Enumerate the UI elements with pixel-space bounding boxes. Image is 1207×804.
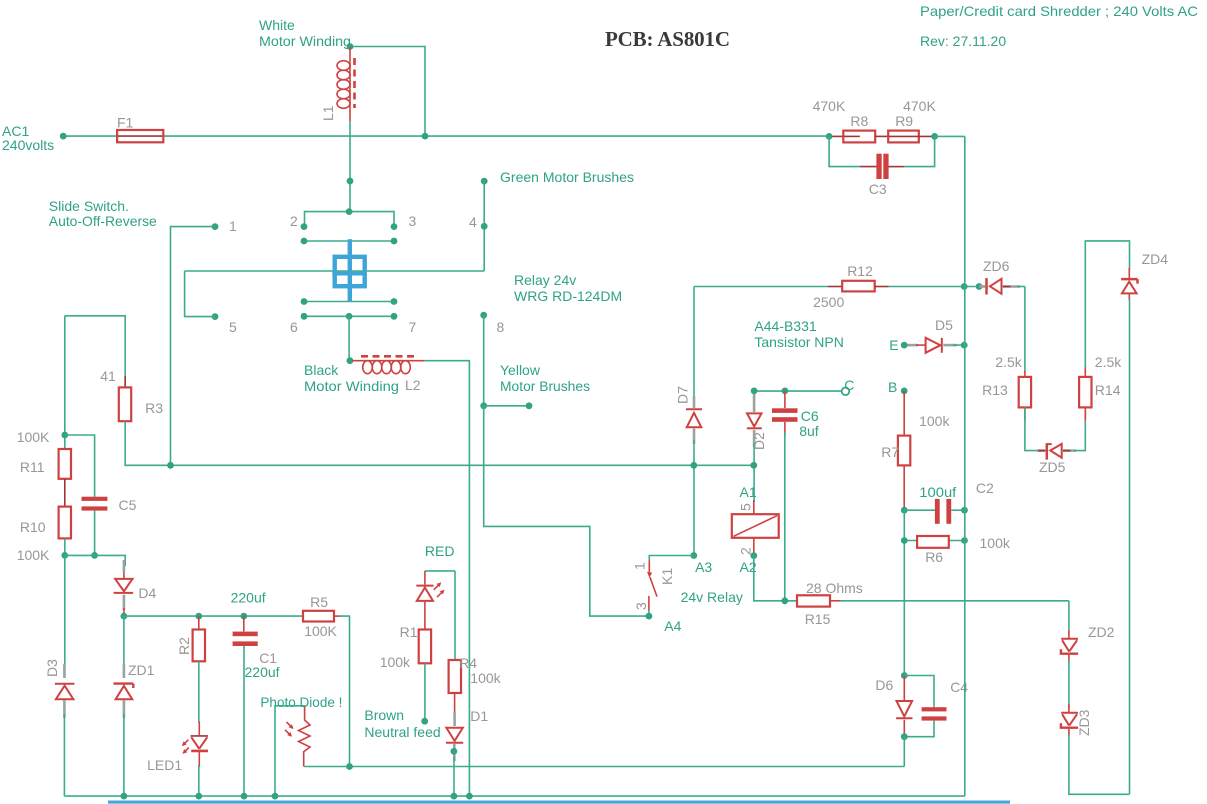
- wire: to right vertical: [935, 135, 965, 137]
- svg-text:R12: R12: [847, 263, 873, 279]
- LED LED1: [182, 722, 208, 797]
- wire: R5 right down to rail: [339, 616, 350, 766]
- node brown neutral terminal: [421, 718, 428, 725]
- label pin numbers 1-8: [229, 213, 505, 335]
- node pin 1: [212, 223, 219, 230]
- svg-text:Relay 24v: Relay 24v: [514, 272, 576, 288]
- svg-text:D5: D5: [935, 317, 953, 333]
- wire: R14 up and over to ZD4: [1084, 367, 1086, 378]
- wire: RED led network top link: [425, 570, 455, 572]
- junction rail C1: [241, 793, 248, 800]
- wire: ZD2 chain from R15 line: [1068, 601, 1070, 630]
- svg-text:5: 5: [229, 319, 237, 335]
- svg-text:470K: 470K: [903, 98, 936, 114]
- junction D1 bottom: [451, 748, 458, 755]
- node A4: [646, 613, 653, 620]
- junction below AC line: [347, 178, 354, 185]
- svg-text:1: 1: [229, 218, 237, 234]
- svg-text:R2: R2: [176, 637, 192, 655]
- svg-text:E: E: [889, 337, 898, 353]
- wire: D4 node down to ZD1: [123, 616, 125, 672]
- svg-text:R11: R11: [20, 459, 45, 475]
- svg-text:R13: R13: [982, 382, 1008, 398]
- svg-text:100k: 100k: [470, 670, 501, 686]
- junction C5 top tap: [61, 432, 68, 439]
- zener ZD5: [1037, 443, 1077, 459]
- wire: pin8 down and yellow terminal stub: [484, 315, 529, 406]
- switch K1: [647, 561, 657, 616]
- svg-text:Auto-Off-Reverse: Auto-Off-Reverse: [49, 213, 157, 229]
- wire: L1 top to AC line: [350, 47, 425, 137]
- wire: switch row 2: [304, 240, 394, 242]
- capacitor C2 100uf: [904, 499, 964, 524]
- svg-text:220uf: 220uf: [245, 664, 280, 680]
- inductor L1: [337, 47, 355, 122]
- wire: ZD5 to R14: [1074, 407, 1085, 450]
- node pin 8: [480, 312, 487, 319]
- wire: switch row 3: [304, 301, 394, 303]
- wire: main right vertical: [964, 136, 966, 796]
- blue bottom bar: [108, 801, 1010, 804]
- resistor R9: [875, 131, 934, 143]
- svg-text:ZD5: ZD5: [1039, 459, 1066, 475]
- wire: C3 parallel bracket: [829, 136, 935, 166]
- svg-text:A44-B331: A44-B331: [754, 318, 816, 334]
- svg-text:24v Relay: 24v Relay: [681, 589, 743, 605]
- junction D4 bottom node: [121, 613, 128, 620]
- svg-text:Brown: Brown: [364, 707, 404, 723]
- svg-text:C3: C3: [869, 181, 887, 197]
- zener ZD2: [1061, 630, 1078, 708]
- junction C2 right: [961, 507, 968, 514]
- diode D7: [686, 287, 702, 556]
- junction C1 top: [240, 613, 247, 620]
- wire: C node line: [754, 390, 842, 392]
- resistor R4: [449, 660, 461, 693]
- wire: R13 down to ZD5: [1025, 407, 1039, 450]
- junction rail ZD1: [121, 793, 128, 800]
- resistor R8: [829, 131, 875, 143]
- svg-text:Motor Winding: Motor Winding: [259, 33, 351, 49]
- svg-text:C6: C6: [801, 408, 819, 424]
- svg-text:2: 2: [290, 213, 298, 229]
- junction row3 right: [391, 298, 398, 305]
- wire: ZD6 down to R13: [1024, 287, 1026, 373]
- svg-text:R3: R3: [145, 400, 163, 416]
- svg-text:Motor Brushes: Motor Brushes: [500, 378, 590, 394]
- svg-text:100k: 100k: [919, 413, 950, 429]
- svg-text:2.5k: 2.5k: [1095, 354, 1122, 370]
- svg-text:B: B: [888, 379, 897, 395]
- wire: A2 down to R15 line: [754, 556, 797, 601]
- svg-text:Motor Winding: Motor Winding: [304, 378, 399, 394]
- wire: row 555 to D4: [65, 555, 125, 566]
- svg-text:Neutral feed: Neutral feed: [364, 724, 440, 740]
- svg-text:6: 6: [290, 319, 298, 335]
- diode D5: [908, 338, 965, 353]
- junction D2 / long net: [750, 462, 757, 469]
- photo diode PD: [275, 706, 310, 796]
- junction C2 left: [901, 507, 908, 514]
- diode D6: [896, 676, 912, 737]
- svg-text:2.5k: 2.5k: [995, 354, 1022, 370]
- zener ZD6: [979, 278, 1025, 294]
- svg-text:7: 7: [409, 319, 417, 335]
- svg-text:D6: D6: [875, 677, 893, 693]
- wire: bottom ground rail: [64, 795, 964, 797]
- junction ZD6 left: [976, 283, 983, 290]
- svg-text:D2: D2: [751, 432, 767, 450]
- svg-text:470K: 470K: [813, 98, 846, 114]
- svg-text:100k: 100k: [980, 535, 1011, 551]
- relay slide symbol (blue): [332, 239, 366, 301]
- wire: A3 to K1: [649, 556, 694, 562]
- resistor R2: [193, 616, 205, 722]
- svg-text:C: C: [844, 377, 854, 393]
- junction row 555 left: [61, 552, 68, 559]
- node pin 5: [212, 313, 219, 320]
- zener ZD1: [113, 664, 133, 796]
- node A3: [690, 552, 697, 559]
- svg-text:1: 1: [632, 562, 648, 570]
- resistor R3: [119, 376, 131, 421]
- resistor R5: [303, 611, 341, 622]
- svg-text:R7: R7: [881, 444, 899, 460]
- svg-text:100k: 100k: [380, 654, 411, 670]
- junction long net / pin1 vertical: [167, 462, 174, 469]
- wire: pin6 center down to L2: [348, 316, 350, 360]
- wire: switch row 4: [304, 315, 394, 317]
- junction D7 / long net: [690, 462, 697, 469]
- svg-text:8: 8: [497, 319, 505, 335]
- wire: R10 bottom to row: [64, 538, 66, 555]
- svg-text:R9: R9: [895, 113, 913, 129]
- svg-text:R4: R4: [459, 655, 477, 671]
- junction R6 right: [961, 537, 968, 544]
- resistor R12: [828, 281, 888, 292]
- wire: left vertical to D3: [64, 555, 66, 678]
- svg-text:R15: R15: [805, 611, 831, 627]
- svg-text:100K: 100K: [17, 429, 50, 445]
- fuse F1: [117, 130, 163, 142]
- svg-text:A3: A3: [695, 559, 712, 575]
- svg-text:Paper/Credit card Shredder ; 2: Paper/Credit card Shredder ; 240 Volts A…: [920, 3, 1198, 19]
- node pin 4: [481, 223, 488, 230]
- junction on AC line: [422, 133, 429, 140]
- inductor L2: [352, 356, 424, 373]
- svg-text:Slide Switch.: Slide Switch.: [49, 198, 129, 214]
- svg-text:R14: R14: [1095, 382, 1121, 398]
- junction row4 left: [301, 313, 308, 320]
- wire: L2 right down long vertical: [424, 361, 469, 796]
- wire: AC 240v main line: [63, 135, 829, 137]
- svg-text:R8: R8: [850, 113, 868, 129]
- svg-text:D4: D4: [138, 585, 156, 601]
- svg-text:PCB: AS801C: PCB: AS801C: [605, 27, 730, 51]
- svg-text:R10: R10: [20, 519, 46, 535]
- junction row4 right: [391, 313, 398, 320]
- junction row4 center: [346, 313, 353, 320]
- junction row2 left: [301, 238, 308, 245]
- junction R5 rail: [346, 763, 353, 770]
- junction R6 left: [901, 537, 908, 544]
- wire: LED row horizontal: [124, 615, 303, 617]
- svg-text:L1: L1: [320, 105, 336, 121]
- resistor R10: [59, 507, 71, 539]
- junction R8 left: [826, 133, 833, 140]
- node green brushes terminal: [481, 178, 488, 185]
- diode D4: [114, 560, 134, 616]
- diode D1: [446, 693, 463, 796]
- capacitor C1: [233, 616, 258, 796]
- junction C6 / R15 line: [781, 597, 788, 604]
- junction rail L2 net: [466, 793, 473, 800]
- svg-text:Green Motor Brushes: Green Motor Brushes: [500, 169, 634, 185]
- svg-text:100uf: 100uf: [919, 484, 956, 500]
- node B: [901, 388, 908, 395]
- resistor R1: [419, 630, 431, 664]
- svg-text:2500: 2500: [813, 294, 844, 310]
- wire: relay crossing line: [185, 270, 485, 272]
- wire: R7 down to D6: [903, 510, 905, 675]
- node C (open circle): [842, 388, 850, 396]
- junction row3 left: [301, 298, 308, 305]
- junction row 555 C5: [91, 552, 98, 559]
- svg-text:100K: 100K: [17, 547, 50, 563]
- svg-text:220uf: 220uf: [231, 590, 266, 606]
- svg-text:Rev: 27.11.20: Rev: 27.11.20: [920, 33, 1006, 49]
- node pin 2: [301, 223, 308, 230]
- wire: pin5 branch: [185, 271, 215, 317]
- svg-text:D1: D1: [470, 708, 488, 724]
- resistor R7: [898, 391, 910, 510]
- svg-text:240volts: 240volts: [2, 137, 54, 153]
- svg-text:C2: C2: [976, 480, 994, 496]
- wire: D6 to rail: [903, 737, 905, 767]
- junction rail photodiode: [272, 793, 279, 800]
- junction R12 net / main vertical: [961, 283, 968, 290]
- junction L2 left: [347, 357, 354, 364]
- svg-text:28 Ohms: 28 Ohms: [806, 580, 863, 596]
- junction C6 top: [782, 388, 789, 395]
- svg-text:ZD3: ZD3: [1076, 709, 1092, 736]
- wire: R3 bottom to long net: [124, 421, 126, 465]
- wire: R12 to vertical: [889, 286, 980, 288]
- junction R2 top: [195, 613, 202, 620]
- relay coil A1: [732, 500, 779, 553]
- svg-text:L2: L2: [405, 377, 421, 393]
- svg-text:Tansistor NPN: Tansistor NPN: [754, 334, 843, 350]
- junction rail LED1: [195, 793, 202, 800]
- wire: R3 top link: [65, 316, 125, 388]
- junction D6 top: [901, 672, 908, 679]
- wire: long horizontal net y=465: [124, 464, 753, 466]
- capacitor C4: [904, 676, 946, 737]
- wire: R1 bottom to brown terminal: [424, 663, 426, 721]
- svg-text:3: 3: [409, 213, 417, 229]
- svg-text:ZD2: ZD2: [1088, 624, 1115, 640]
- svg-text:LED1: LED1: [147, 757, 182, 773]
- svg-text:Black: Black: [304, 362, 339, 378]
- svg-text:ZD4: ZD4: [1142, 251, 1169, 267]
- junction R9 right: [931, 133, 938, 140]
- capacitor C3: [860, 154, 904, 179]
- junction row2 right: [391, 238, 398, 245]
- wire: green brushes to pin4: [483, 181, 485, 271]
- resistor R15: [797, 595, 842, 606]
- svg-text:A1: A1: [740, 484, 757, 500]
- svg-text:A4: A4: [664, 618, 681, 634]
- capacitor C6: [772, 391, 798, 601]
- node yellow brushes terminal: [526, 402, 533, 409]
- svg-text:K1: K1: [659, 568, 675, 585]
- zener ZD3: [1061, 704, 1130, 794]
- junction rail D1: [451, 793, 458, 800]
- svg-text:RED: RED: [425, 543, 455, 559]
- wire: R4 top lead: [454, 571, 456, 660]
- junction D5 / main vertical: [961, 342, 968, 349]
- wire: photodiode bottom rail: [304, 766, 904, 768]
- wire: pin1 to long left vertical: [171, 227, 216, 466]
- svg-text:White: White: [259, 17, 295, 33]
- wire: R15 to right loop: [840, 600, 1069, 602]
- diode D2: [747, 394, 762, 502]
- node AC1 terminal: [60, 133, 67, 140]
- svg-text:Yellow: Yellow: [500, 362, 541, 378]
- svg-text:100K: 100K: [304, 623, 337, 639]
- junction pin8 branch: [480, 402, 487, 409]
- junction at L1 top: [347, 43, 354, 50]
- resistor R14: [1079, 377, 1091, 408]
- resistor R13: [1019, 377, 1031, 408]
- wire: between R11 and R10: [64, 479, 66, 507]
- svg-text:ZD1: ZD1: [128, 662, 155, 678]
- wire: R11 chain vertical top: [64, 316, 66, 449]
- junction bracket center: [346, 208, 353, 215]
- node A2: [750, 552, 757, 559]
- wire: L1 lead down to switch: [349, 121, 351, 212]
- svg-text:3: 3: [633, 602, 649, 610]
- resistor R11: [59, 449, 71, 479]
- svg-text:R5: R5: [310, 594, 328, 610]
- node E: [901, 342, 908, 349]
- zener ZD4: [1121, 268, 1137, 794]
- svg-text:R1: R1: [400, 624, 418, 640]
- junction D6 bottom: [901, 733, 908, 740]
- wire: pin8 path to A4: [484, 406, 649, 616]
- wire: R12 net line: [694, 286, 829, 288]
- node pin 3: [391, 223, 398, 230]
- svg-text:5: 5: [738, 503, 754, 511]
- svg-text:D3: D3: [44, 659, 60, 677]
- svg-text:8uf: 8uf: [799, 423, 819, 439]
- LED RED: [416, 571, 444, 630]
- resistor R6: [904, 536, 964, 548]
- diode D3: [55, 664, 75, 796]
- capacitor C5: [65, 435, 108, 555]
- svg-text:C5: C5: [119, 497, 137, 513]
- svg-text:ZD6: ZD6: [983, 258, 1010, 274]
- junction D2 top: [751, 388, 758, 395]
- wire: switch top bracket: [305, 212, 395, 227]
- svg-text:R6: R6: [925, 549, 943, 565]
- svg-text:F1: F1: [117, 115, 134, 131]
- svg-text:D7: D7: [675, 386, 691, 404]
- svg-text:4: 4: [469, 214, 477, 230]
- svg-text:41: 41: [100, 368, 116, 384]
- svg-text:Photo Diode !: Photo Diode !: [260, 694, 342, 710]
- svg-text:WRG RD-124DM: WRG RD-124DM: [514, 288, 622, 304]
